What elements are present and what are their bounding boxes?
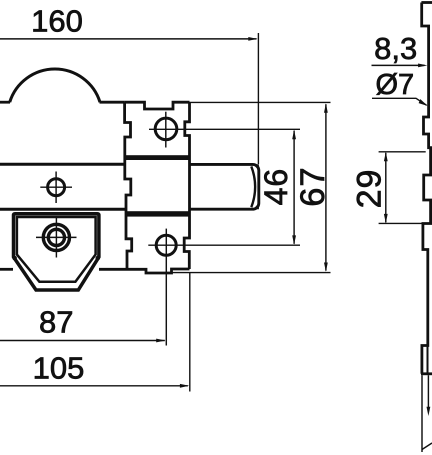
bottom hole vertical crosshair + 87 extension [165, 229, 167, 346]
top edge extension line for 67 [189, 101, 330, 103]
side view castellated left profile [422, 3, 431, 374]
plate top edge left of dome [0, 101, 10, 104]
block top edge with middle dip [125, 102, 190, 109]
dim 29 extension lines [379, 152, 426, 224]
dim 87 line [0, 340, 165, 342]
bottom hole horizontal crosshair + 46 bottom extension [148, 244, 300, 246]
leader 8,3 arrow [418, 64, 427, 68]
side view lower extension line B [427, 375, 429, 409]
block right castellated edge [184, 102, 189, 269]
housing cylinder outer circle [43, 224, 69, 250]
housing chamfer dots [12, 256, 17, 261]
dim 87 arrow [156, 339, 165, 343]
bolt bar [189, 164, 259, 209]
block bottom edge with middle dip [127, 269, 190, 273]
channel top line on plate [0, 163, 126, 166]
svg-text:67: 67 [294, 166, 332, 206]
plate bottom edge right of housing [99, 268, 127, 271]
dim 105 arrow [180, 384, 189, 388]
cylinder housing outer outline [14, 214, 99, 290]
bolt end corner bevels [252, 164, 259, 209]
left hole crosshairs [40, 172, 72, 204]
side view bottom box inner line [427, 347, 429, 373]
dim 67 arrows [324, 103, 328, 271]
block bottom divider bar [126, 211, 190, 216]
dim 160 extension line [257, 33, 259, 164]
svg-text:29: 29 [350, 169, 388, 209]
top hole horizontal crosshair + 46 top extension [149, 128, 300, 130]
dim 105 extension line [189, 273, 191, 392]
svg-text:105: 105 [33, 351, 85, 386]
leader 8,3 [372, 64, 425, 66]
housing circle crosshairs [36, 218, 77, 258]
svg-text:8,3: 8,3 [374, 31, 417, 66]
dim 160 line [0, 38, 257, 40]
leader 07 [372, 98, 427, 105]
bolt end inner arc [251, 166, 255, 207]
dim 105 line [0, 385, 188, 387]
side view lower diagonal leader [422, 443, 432, 450]
side view bottom edge [421, 372, 432, 375]
dome arch on plate top [10, 69, 100, 102]
svg-text:160: 160 [31, 4, 83, 39]
dim 46 line [293, 131, 295, 244]
screw hole left plate [48, 179, 65, 196]
side view top edge [421, 1, 432, 4]
top hole vertical crosshair [165, 112, 167, 148]
channel bottom line on plate [0, 208, 126, 211]
side view lower arrow [427, 407, 431, 416]
cylinder housing inner line [17, 217, 96, 282]
plate top edge right of dome [100, 101, 125, 104]
plate bottom edge left segment [0, 268, 13, 271]
svg-text:46: 46 [258, 168, 294, 206]
dim 67 line [325, 104, 327, 270]
screw hole bottom (block) [156, 235, 176, 255]
side view lower extension line A [421, 375, 423, 452]
block top divider bar [126, 155, 190, 160]
dim 160 arrow [248, 37, 257, 41]
dim 46 arrows [292, 130, 296, 245]
svg-text:Ø7: Ø7 [375, 69, 414, 101]
housing cylinder inner circle [48, 229, 64, 245]
dim 29 arrows [384, 152, 388, 223]
dim 29 line [385, 153, 387, 223]
block left castellated edge [125, 102, 132, 269]
svg-text:87: 87 [39, 305, 73, 340]
screw hole top (block) [155, 118, 177, 140]
leader 07 arrow [419, 99, 428, 106]
bottom extension line for 67 [172, 272, 331, 274]
